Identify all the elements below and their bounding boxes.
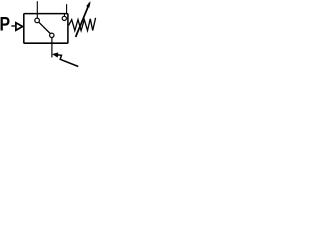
electric signal arrowhead <box>53 53 58 58</box>
wire top-left <box>36 1 38 18</box>
valve body B1 <box>24 14 68 44</box>
spring adjustment arrow shaft <box>76 3 90 37</box>
spring <box>69 18 96 31</box>
wire below K2 <box>51 38 53 58</box>
stem to contact K3 <box>63 14 65 16</box>
contact circle K1 <box>35 18 40 23</box>
switch lever <box>39 22 50 33</box>
contact circle K3 <box>62 16 66 20</box>
electric signal bolt polyline <box>57 55 78 67</box>
input arrowhead <box>16 23 23 31</box>
svg-text:P: P <box>0 13 10 35</box>
spring adjustment arrowhead <box>86 2 90 8</box>
wire top-right <box>66 4 68 13</box>
wire dash from P <box>11 25 15 27</box>
contact circle K2 <box>50 33 54 37</box>
